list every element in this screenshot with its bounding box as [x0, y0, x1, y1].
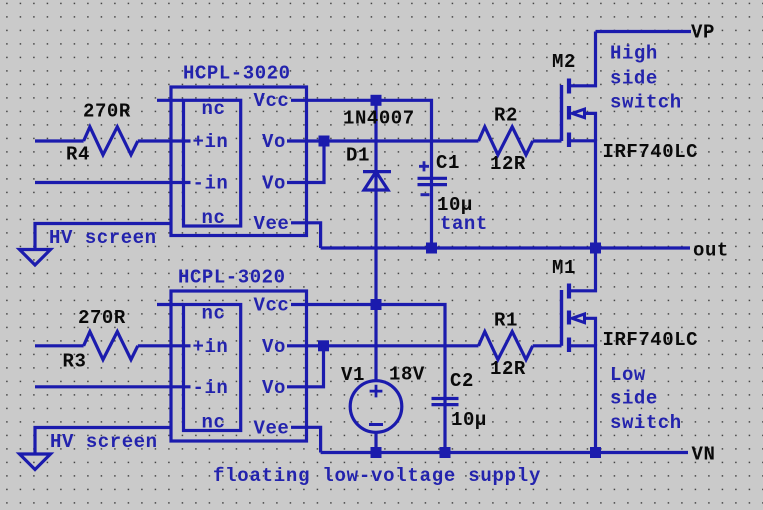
- svg-text:nc: nc: [202, 207, 226, 229]
- wire Vo1 to Vo2 vertical lower: [287, 346, 324, 387]
- capacitor C2: [432, 399, 459, 405]
- node junction C2 bottom: [440, 447, 451, 458]
- op-amp U2 inner box lower: [184, 305, 241, 431]
- svg-text:Vo: Vo: [262, 377, 286, 399]
- capacitor C1: [418, 178, 448, 184]
- svg-text:HCPL-3020: HCPL-3020: [178, 267, 286, 289]
- svg-text:Low: Low: [610, 364, 646, 386]
- svg-text:floating low-voltage supply: floating low-voltage supply: [213, 465, 541, 487]
- transistor M1 channel dashes: [567, 284, 571, 353]
- transistor M2 body arrow: [572, 109, 585, 118]
- resistor R4: [84, 127, 138, 155]
- svg-text:10µ: 10µ: [451, 409, 487, 431]
- svg-text:D1: D1: [346, 145, 370, 167]
- svg-text:HV screen: HV screen: [49, 227, 157, 249]
- svg-text:+in: +in: [193, 336, 229, 358]
- voltage source V1 plus: [370, 385, 383, 398]
- svg-text:High: High: [610, 43, 658, 65]
- node junction Vo upper: [319, 136, 330, 147]
- node junction V1 bottom: [371, 447, 382, 458]
- wire Vo1 to Vo2 vertical upper: [287, 141, 324, 183]
- wire V1 bottom stub: [374, 432, 377, 452]
- voltage source V1 minus: [369, 423, 383, 426]
- wire Vcc row lower: [291, 305, 445, 453]
- wire Vee row upper left to ground: [35, 224, 171, 252]
- wire -in lower left: [35, 385, 191, 388]
- transistor M1 body stub: [584, 318, 596, 346]
- resistor R1: [479, 332, 533, 360]
- svg-text:out: out: [693, 240, 729, 262]
- transistor M1 source stub: [569, 346, 596, 453]
- svg-text:-in: -in: [193, 173, 229, 195]
- wire D1 vertical: [374, 100, 377, 381]
- transistor M2 drain stub: [569, 32, 596, 86]
- wire R1 to M1 gate: [533, 344, 562, 347]
- svg-text:IRF740LC: IRF740LC: [603, 329, 699, 351]
- svg-text:+in: +in: [193, 131, 229, 153]
- wire Vee stub right lower down to VN: [291, 427, 321, 452]
- svg-text:C2: C2: [450, 370, 474, 392]
- capacitor C1 plus sign: [419, 161, 429, 171]
- pin nc stub upper: [157, 99, 184, 102]
- wire Vcc row upper: [291, 100, 432, 248]
- pin nc stub lower: [157, 303, 184, 306]
- svg-text:M2: M2: [552, 51, 576, 73]
- resistor R2: [479, 127, 533, 155]
- svg-text:side: side: [610, 388, 658, 410]
- svg-text:Vcc: Vcc: [254, 90, 290, 112]
- node junction M2 source out: [590, 243, 601, 254]
- svg-text:Vee: Vee: [254, 213, 290, 235]
- svg-text:VN: VN: [692, 444, 716, 466]
- ground HV screen lower: [20, 454, 51, 470]
- svg-text:switch: switch: [610, 91, 682, 113]
- node junction C1 out: [426, 243, 437, 254]
- svg-text:12R: 12R: [490, 358, 526, 380]
- svg-text:nc: nc: [202, 412, 226, 434]
- op-amp U1 outer box upper: [171, 87, 307, 236]
- voltage source V1: [350, 381, 402, 433]
- svg-text:270R: 270R: [83, 101, 131, 123]
- svg-text:Vee: Vee: [254, 418, 290, 440]
- svg-text:nc: nc: [202, 303, 226, 325]
- svg-text:switch: switch: [610, 412, 682, 434]
- op-amp U1 inner box upper: [184, 100, 241, 226]
- transistor M1 body arrow: [572, 314, 585, 323]
- transistor M1 drain stub: [569, 248, 596, 291]
- capacitor C1 minus sign: [421, 193, 430, 196]
- wire VP rail: [596, 30, 692, 33]
- node junction V1 top: [371, 299, 382, 310]
- svg-text:Vcc: Vcc: [254, 295, 290, 317]
- svg-text:Vo: Vo: [262, 173, 286, 195]
- ground HV screen upper: [20, 250, 51, 266]
- svg-text:IRF740LC: IRF740LC: [603, 141, 699, 163]
- wire -in upper left: [35, 181, 191, 184]
- op-amp U2 outer box lower: [171, 291, 307, 441]
- svg-text:R2: R2: [494, 105, 518, 127]
- svg-text:C1: C1: [436, 152, 460, 174]
- node junction M1 source VN: [590, 447, 601, 458]
- resistor R3: [84, 332, 138, 360]
- wire R2 to M2 gate: [533, 139, 562, 142]
- node junction D1 top: [371, 95, 382, 106]
- wire +in lower left: [35, 344, 191, 347]
- svg-text:VP: VP: [691, 22, 715, 44]
- svg-text:270R: 270R: [78, 307, 126, 329]
- svg-text:R4: R4: [66, 144, 90, 166]
- wire Vo row upper to R2: [287, 139, 479, 142]
- wire Vee row lower left to ground: [35, 428, 171, 456]
- svg-text:18V: 18V: [389, 363, 425, 385]
- node junction Vo lower: [318, 340, 329, 351]
- wire out row: [321, 246, 690, 249]
- svg-text:HV screen: HV screen: [50, 431, 158, 453]
- svg-text:1N4007: 1N4007: [343, 108, 415, 130]
- svg-text:nc: nc: [202, 98, 226, 120]
- svg-text:V1: V1: [341, 364, 365, 386]
- svg-text:HCPL-3020: HCPL-3020: [183, 63, 291, 85]
- wire VN rail: [321, 451, 688, 454]
- transistor M2 body stub: [584, 113, 596, 141]
- wire +in upper left: [35, 139, 191, 142]
- transistor M2 channel dashes: [567, 79, 571, 148]
- diode D1: [363, 172, 391, 190]
- transistor M2 source stub: [569, 141, 596, 248]
- svg-text:-in: -in: [193, 377, 229, 399]
- svg-text:R1: R1: [494, 310, 518, 332]
- svg-text:Vo: Vo: [262, 131, 286, 153]
- svg-text:R3: R3: [63, 351, 87, 373]
- svg-text:12R: 12R: [490, 153, 526, 175]
- wire Vee stub right upper down to out: [291, 223, 321, 248]
- svg-text:side: side: [610, 67, 658, 89]
- svg-text:Vo: Vo: [262, 336, 286, 358]
- wire Vo row lower to R1: [287, 344, 479, 347]
- transistor M2 gate bar: [560, 85, 563, 141]
- svg-text:M1: M1: [552, 257, 576, 279]
- svg-text:tant: tant: [440, 213, 488, 235]
- transistor M1 gate bar: [560, 290, 563, 346]
